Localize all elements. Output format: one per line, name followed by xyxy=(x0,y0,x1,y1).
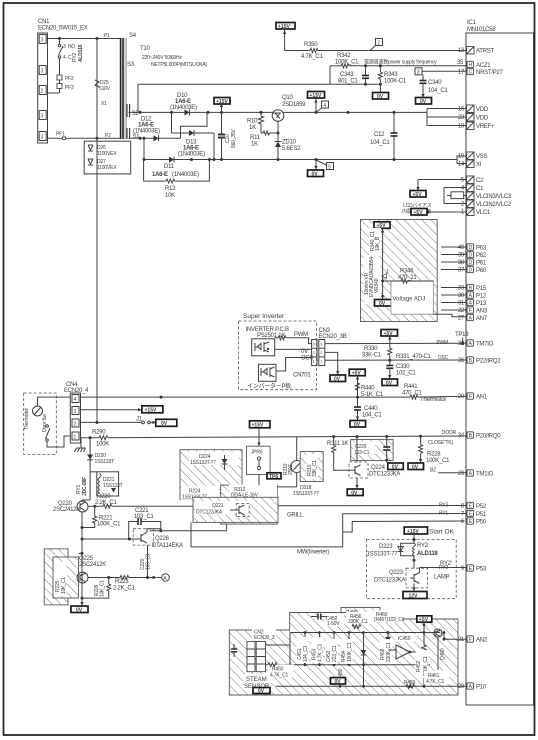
svg-text:VDD: VDD xyxy=(476,116,489,122)
svg-text:R228: R228 xyxy=(427,452,441,458)
RY1 MW line xyxy=(191,514,466,556)
IC1 pin 29 TM1IO xyxy=(458,470,494,478)
svg-text:LAMP: LAMP xyxy=(434,575,450,581)
svg-text:VDD: VDD xyxy=(476,107,489,113)
svg-text:VR340: VR340 xyxy=(374,278,380,293)
svg-text:39: 39 xyxy=(458,253,465,259)
svg-text:D: D xyxy=(468,245,472,251)
svg-text:ALD118: ALD118 xyxy=(78,44,84,62)
+5V top right xyxy=(417,616,432,622)
C330 xyxy=(382,360,416,386)
svg-text:MN101C58: MN101C58 xyxy=(467,27,496,33)
svg-text:VLC1: VLC1 xyxy=(476,210,491,216)
svg-text:AN1: AN1 xyxy=(476,395,488,401)
svg-text:ECN20_5W015_EX: ECN20_5W015_EX xyxy=(38,26,88,32)
svg-text:0V: 0V xyxy=(420,99,427,105)
svg-text:0V: 0V xyxy=(386,381,393,387)
svg-text:0V: 0V xyxy=(377,94,384,100)
svg-text:R346: R346 xyxy=(400,269,414,275)
svg-text:DTA114EKA: DTA114EKA xyxy=(152,543,183,549)
R440 +5V xyxy=(349,369,384,398)
R450 xyxy=(268,665,294,678)
diode D220 xyxy=(87,438,114,472)
svg-text:+15V: +15V xyxy=(252,423,264,429)
BZ wire xyxy=(430,468,466,474)
IC1 pin 8 P52 xyxy=(439,502,487,510)
svg-text:D: D xyxy=(468,253,472,259)
capacitor C12 xyxy=(370,111,398,161)
C440 xyxy=(350,397,382,428)
svg-text:35: 35 xyxy=(457,60,464,66)
optocoupler U701a xyxy=(252,339,275,356)
svg-text:4.7K_C1: 4.7K_C1 xyxy=(270,673,288,679)
svg-text:D223: D223 xyxy=(379,544,393,550)
wire S1 line with D12 xyxy=(129,112,208,139)
IC1 pin 35 ACZ1 xyxy=(457,60,491,69)
IC1 pin 20 AN1 xyxy=(458,393,488,401)
svg-text:14: 14 xyxy=(458,162,465,168)
svg-text:P51: P51 xyxy=(476,512,487,518)
PWM wire w/ resistor xyxy=(275,337,278,339)
internal rails xyxy=(266,644,291,646)
svg-text:P12: P12 xyxy=(476,294,487,300)
0V drop from CN3 pin2 xyxy=(325,352,346,382)
svg-text:C330: C330 xyxy=(396,364,410,370)
svg-text:1SS133T: 1SS133T xyxy=(95,459,115,465)
svg-text:P60: P60 xyxy=(476,268,487,274)
svg-text:31: 31 xyxy=(458,301,465,307)
DOOR CLOSE labels xyxy=(428,430,457,446)
IC1 pin 14 XI xyxy=(458,160,482,168)
hatched box Q221/R312 xyxy=(221,485,278,525)
IC1 pin 4 C1 xyxy=(461,184,484,192)
svg-text:1A6-E: 1A6-E xyxy=(152,172,168,178)
svg-text:C340: C340 xyxy=(428,80,442,86)
svg-text:R350: R350 xyxy=(304,42,318,48)
svg-text:DTC123JKA: DTC123JKA xyxy=(196,510,223,516)
svg-text:P13: P13 xyxy=(476,301,487,307)
svg-text:CN701: CN701 xyxy=(293,373,311,379)
svg-text:0V: 0V xyxy=(351,491,358,497)
svg-text:AN7: AN7 xyxy=(476,316,488,322)
resistor R350 xyxy=(285,42,466,60)
IC1 pin 3 VLCIN3/VLC3 xyxy=(461,192,512,200)
+5V label to pin1 VLC1 xyxy=(411,209,466,217)
svg-text:C: C xyxy=(468,70,472,76)
svg-text:104_C1: 104_C1 xyxy=(362,413,382,419)
svg-text:R11: R11 xyxy=(250,135,261,141)
svg-text:1-50V: 1-50V xyxy=(327,621,340,627)
R290 DOOR line xyxy=(81,430,467,448)
tag 4 xyxy=(316,101,329,112)
IC1 pin 37 P60 xyxy=(458,266,487,274)
svg-text:DTC123JKA: DTC123JKA xyxy=(369,472,400,478)
diode D13 branch xyxy=(172,112,215,159)
svg-text:104_C1: 104_C1 xyxy=(428,88,448,94)
svg-text:1K: 1K xyxy=(251,142,258,148)
svg-text:Voltage ADJ: Voltage ADJ xyxy=(393,297,426,303)
+5V label inside xyxy=(374,222,390,229)
hatched box R225 xyxy=(44,549,83,605)
svg-text:VREF+: VREF+ xyxy=(476,124,495,130)
svg-text:801_C1: 801_C1 xyxy=(338,79,358,85)
transistor Q10 xyxy=(272,95,306,135)
resistor R454 xyxy=(341,633,354,665)
+15V label at Q10 xyxy=(308,92,325,113)
R223 to A xyxy=(88,574,169,592)
connector CN4 xyxy=(64,382,89,443)
svg-text:0V: 0V xyxy=(258,689,265,695)
wire S2 +15V line xyxy=(129,111,428,114)
svg-text:R311 1K: R311 1K xyxy=(327,441,348,447)
svg-text:CLOSE"TK): CLOSE"TK) xyxy=(428,440,454,446)
svg-text:4: 4 xyxy=(74,397,77,403)
wire pin5 C2 to +5V xyxy=(410,180,466,199)
svg-text:インバーターP板: インバーターP板 xyxy=(247,382,291,390)
IC1 pin 32 TM7IO xyxy=(436,340,493,348)
svg-text:C12: C12 xyxy=(374,132,385,138)
svg-text:R12: R12 xyxy=(165,186,176,192)
svg-text:+15V: +15V xyxy=(278,24,290,30)
svg-text:+5V: +5V xyxy=(352,371,362,377)
svg-text:P53: P53 xyxy=(476,567,487,573)
svg-text:NO: NO xyxy=(68,44,75,50)
transformer T10 xyxy=(121,33,208,140)
IC1 pin 21 AN2 xyxy=(458,636,488,644)
svg-text:3: 3 xyxy=(41,114,44,120)
capacitor C451 xyxy=(297,633,310,665)
0V label below R343 xyxy=(373,84,389,100)
svg-text:NETP5L000P(MITSUOKA): NETP5L000P(MITSUOKA) xyxy=(151,62,208,68)
relay contact RY2 xyxy=(58,39,84,63)
svg-text:1100VEX: 1100VEX xyxy=(97,165,117,171)
svg-text:Q224: Q224 xyxy=(371,465,386,471)
IC1 pin 28 P10 xyxy=(458,683,487,691)
0V wire xyxy=(275,348,312,350)
transistor Q223 xyxy=(374,561,466,599)
svg-text:IC1: IC1 xyxy=(467,20,477,26)
svg-text:4: 4 xyxy=(63,55,66,61)
connector CN1 xyxy=(38,19,88,143)
svg-text:ZD10: ZD10 xyxy=(282,140,297,146)
svg-text:33K_C1: 33K_C1 xyxy=(312,460,318,477)
svg-text:(1N4003E): (1N4003E) xyxy=(172,172,199,178)
comparator IC450 xyxy=(388,634,420,659)
resistor R343 xyxy=(378,66,406,85)
svg-text:4.7K_C1: 4.7K_C1 xyxy=(301,54,324,60)
svg-text:OSC: OSC xyxy=(438,355,449,361)
svg-text:DOOR: DOOR xyxy=(442,430,457,436)
box on pin3 wire xyxy=(447,192,466,199)
transistor Q450 xyxy=(434,629,446,670)
svg-text:R343: R343 xyxy=(384,72,398,78)
svg-text:S3: S3 xyxy=(127,62,135,68)
svg-text:電源周波数: 電源周波数 xyxy=(364,59,388,66)
transistor Q220 xyxy=(53,500,90,598)
ground rail 0V xyxy=(143,138,467,161)
svg-text:ACZ1: ACZ1 xyxy=(476,63,491,69)
diodes D26 D27 box xyxy=(84,141,131,174)
resistor R342 ACZ1 net xyxy=(330,53,466,68)
svg-text:510V: 510V xyxy=(99,86,111,92)
IC1 pin 22 AN3 xyxy=(458,307,488,315)
svg-text:5-1K_C1: 5-1K_C1 xyxy=(361,392,384,398)
svg-text:GRILL: GRILL xyxy=(287,513,304,519)
svg-text:JPR6: JPR6 xyxy=(251,450,263,456)
svg-text:P15: P15 xyxy=(476,286,487,292)
svg-text:R441: R441 xyxy=(404,384,418,390)
varistor D25 xyxy=(95,33,111,139)
svg-text:0V: 0V xyxy=(312,172,319,178)
svg-text:102_C1: 102_C1 xyxy=(396,371,416,377)
svg-text:IC450: IC450 xyxy=(398,636,411,642)
svg-text:18: 18 xyxy=(458,124,465,130)
svg-text:PF1: PF1 xyxy=(56,132,65,138)
thermistor wires to CN4 xyxy=(38,397,71,447)
svg-text:10K: 10K xyxy=(165,193,175,199)
svg-text:36: 36 xyxy=(458,358,465,364)
svg-text:470_C1: 470_C1 xyxy=(402,391,422,397)
transistor Q225 xyxy=(77,556,106,583)
svg-text:+15V: +15V xyxy=(216,99,228,105)
svg-text:3: 3 xyxy=(74,409,77,415)
svg-text:12V: 12V xyxy=(409,593,419,599)
diode D450 xyxy=(338,633,366,687)
optocoupler U701b xyxy=(259,364,277,381)
resistor R11 xyxy=(250,131,278,148)
relay RY2 coil + D223 xyxy=(413,534,415,543)
svg-text:33K-C1: 33K-C1 xyxy=(362,353,382,359)
IC U1 body xyxy=(466,20,534,705)
svg-text:2SC2412K: 2SC2412K xyxy=(79,562,106,568)
svg-text:2.2K_C1: 2.2K_C1 xyxy=(113,586,136,592)
IC1 pin 31 P13 xyxy=(458,299,487,307)
svg-text:2SD1859: 2SD1859 xyxy=(282,102,306,108)
svg-text:104_C1: 104_C1 xyxy=(303,645,309,662)
hatched box D318 xyxy=(293,452,323,498)
svg-text:NRST/P27: NRST/P27 xyxy=(476,70,504,76)
IC1 pin 16 VDD xyxy=(458,105,489,113)
svg-text:+5V: +5V xyxy=(414,210,424,216)
svg-text:power supply frequency: power supply frequency xyxy=(388,60,437,66)
IC1 pin 23 VDD xyxy=(458,114,489,122)
left capacitor xyxy=(233,644,235,649)
IC1 pin 34 P20/IRQ0 xyxy=(458,432,501,440)
svg-text:38: 38 xyxy=(458,260,465,266)
long vertical rail from CN1 area down to CN4 xyxy=(96,138,98,424)
hatched box Q221 lower xyxy=(193,497,278,522)
svg-text:Q10: Q10 xyxy=(282,95,294,101)
svg-text:10K_B: 10K_B xyxy=(375,236,381,251)
connector CN3 xyxy=(312,328,347,366)
svg-text:R440: R440 xyxy=(361,386,375,392)
thermistor AN1 line xyxy=(81,384,467,403)
svg-text:23: 23 xyxy=(458,115,465,121)
svg-text:2: 2 xyxy=(41,89,44,95)
AN2 wire out xyxy=(444,638,466,640)
0V below Q225 xyxy=(71,598,88,613)
hatched box C220 xyxy=(351,437,404,471)
C221 xyxy=(129,508,161,539)
svg-text:C343: C343 xyxy=(340,72,354,78)
J1 jumper 0V CN4 pin2 xyxy=(81,417,177,428)
JPR6 xyxy=(247,421,271,485)
svg-text:330K_C1: 330K_C1 xyxy=(348,619,368,625)
svg-text:100K-C1: 100K-C1 xyxy=(384,79,407,85)
pins 40-37 / 33-31 / 22 stub wires xyxy=(441,247,466,310)
IC1 pin 1 VLC1 xyxy=(461,208,491,216)
resistor R453 xyxy=(311,633,324,665)
P10 wire out xyxy=(446,685,466,687)
white inner box Voltage ADJ xyxy=(391,281,433,314)
IC1 pin 13 ATRST xyxy=(458,47,495,55)
svg-text:103-C1: 103-C1 xyxy=(354,450,370,456)
svg-text:4.7K_C1: 4.7K_C1 xyxy=(426,679,444,685)
svg-text:Q226: Q226 xyxy=(155,536,170,542)
LCD bias jp text xyxy=(402,203,432,215)
svg-text:Super Inverter: Super Inverter xyxy=(243,313,285,320)
svg-text:H: H xyxy=(468,63,472,69)
svg-text:3: 3 xyxy=(417,70,420,76)
GRILL RY3 line xyxy=(278,506,466,519)
svg-text:0V: 0V xyxy=(334,377,341,383)
svg-text:C2: C2 xyxy=(476,178,484,184)
svg-text:104_C1: 104_C1 xyxy=(370,140,390,146)
IC1 pin 36 P22/IRQ2 xyxy=(458,357,501,365)
capacitor C10 xyxy=(218,112,237,159)
svg-text:1SS133T-77: 1SS133T-77 xyxy=(367,552,399,558)
capacitor C343 xyxy=(338,66,369,85)
svg-text:X1: X1 xyxy=(101,101,107,107)
svg-text:+5V: +5V xyxy=(384,331,394,337)
svg-text:Start OK: Start OK xyxy=(429,529,455,536)
wire to Q226 xyxy=(81,538,134,541)
svg-text:2.2K_C1: 2.2K_C1 xyxy=(95,500,118,506)
IC1 pin 9 P53 xyxy=(439,565,487,573)
svg-text:VSS: VSS xyxy=(476,154,488,160)
svg-text:29: 29 xyxy=(458,471,465,477)
svg-text:R452: R452 xyxy=(416,660,422,672)
svg-text:2: 2 xyxy=(377,40,380,46)
svg-text:R290: R290 xyxy=(92,430,106,436)
wire pin4 pin2 bracket xyxy=(444,188,466,204)
svg-text:1: 1 xyxy=(74,435,77,441)
resistor R10 xyxy=(247,112,264,133)
R330 pullup xyxy=(362,330,398,361)
svg-text:103_C1: 103_C1 xyxy=(146,553,152,570)
svg-text:ALD118: ALD118 xyxy=(417,551,438,557)
tag 2 xyxy=(370,39,383,51)
IC1 pin 40 P63 xyxy=(458,244,487,252)
svg-text:1SS133T-77: 1SS133T-77 xyxy=(190,460,216,466)
svg-text:P62: P62 xyxy=(476,253,487,259)
svg-text:F: F xyxy=(469,394,472,400)
svg-text:100K_C1: 100K_C1 xyxy=(97,522,121,528)
capacitor C453 xyxy=(326,633,339,665)
svg-text:F: F xyxy=(469,637,472,643)
svg-text:TP6: TP6 xyxy=(269,474,278,480)
svg-text:37: 37 xyxy=(458,268,465,274)
svg-text:0V: 0V xyxy=(335,679,342,685)
svg-text:220~240V 50/60Hz: 220~240V 50/60Hz xyxy=(142,55,182,61)
svg-text:C1: C1 xyxy=(476,186,484,192)
svg-text:D11: D11 xyxy=(164,164,175,170)
svg-text:S4: S4 xyxy=(129,33,137,39)
svg-text:AN2: AN2 xyxy=(476,638,488,644)
svg-text:Thermistor: Thermistor xyxy=(24,408,30,430)
thermistor dashed box xyxy=(24,393,57,454)
svg-text:16: 16 xyxy=(458,107,465,113)
svg-text:R10: R10 xyxy=(247,119,258,125)
svg-text:(1N4003E): (1N4003E) xyxy=(170,105,197,111)
IC1 pin 10 VSS xyxy=(458,152,488,160)
C222 vertical to A line xyxy=(140,545,152,577)
CN2 xyxy=(252,628,276,641)
svg-text:103_C1: 103_C1 xyxy=(134,514,154,520)
+15V label CN4 pin3 xyxy=(81,406,163,414)
wire CN1 bottom to P2 with PF1 xyxy=(48,132,121,140)
svg-text:P63: P63 xyxy=(476,246,487,252)
svg-text:3: 3 xyxy=(41,69,44,75)
IC1 pin 39 P62 xyxy=(458,251,487,259)
fuses PF2 PF3 xyxy=(48,58,74,93)
svg-text:Door Sw: Door Sw xyxy=(42,414,48,432)
IC1 pin 2 VLCIN2/VLC2 xyxy=(461,200,512,208)
svg-text:1: 1 xyxy=(386,269,389,275)
svg-text:5: 5 xyxy=(328,164,331,170)
R228 xyxy=(408,436,450,470)
svg-text:28: 28 xyxy=(458,684,465,690)
svg-text:+15V: +15V xyxy=(407,529,419,535)
IC1 pin 5 C2 xyxy=(461,176,484,184)
IC1 pin 30 P12 xyxy=(458,292,487,300)
svg-text:0V: 0V xyxy=(76,608,83,614)
svg-text:P2: P2 xyxy=(105,133,111,139)
svg-text:5.6ES2: 5.6ES2 xyxy=(282,146,301,152)
svg-text:PWM: PWM xyxy=(294,332,308,338)
IC1 pin 17 NRST/P27 xyxy=(458,68,504,76)
svg-text:VLCIN2/VLC2: VLCIN2/VLC2 xyxy=(476,202,512,208)
svg-text:TM7IO: TM7IO xyxy=(476,342,494,348)
svg-text:2: 2 xyxy=(74,422,77,428)
svg-text:D: D xyxy=(468,260,472,266)
svg-text:+15V: +15V xyxy=(145,408,157,414)
top row components xyxy=(324,614,344,627)
diode D10 xyxy=(170,93,197,115)
IC1 pin 6 P50 xyxy=(461,518,487,526)
TP6 label xyxy=(267,473,281,480)
ground symbol xyxy=(75,438,86,452)
diode D12 xyxy=(133,117,160,142)
OCS wire xyxy=(276,358,312,372)
svg-text:30: 30 xyxy=(458,293,465,299)
transistor Q226 xyxy=(133,506,226,549)
svg-text:ATRST: ATRST xyxy=(476,49,495,55)
transistor Q224 xyxy=(347,437,400,497)
svg-text:Q221: Q221 xyxy=(212,503,224,509)
relay RY1 xyxy=(76,472,123,500)
svg-text:T10: T10 xyxy=(140,46,151,52)
svg-text:21: 21 xyxy=(458,637,465,643)
VDD bracket wire xyxy=(427,109,466,126)
svg-text:+15V: +15V xyxy=(310,93,322,99)
0V labels xyxy=(331,678,346,684)
IC1 pin 7 P51 xyxy=(439,510,487,518)
capacitor C340 xyxy=(416,75,449,105)
svg-text:22: 22 xyxy=(458,308,465,314)
zener ZD10 xyxy=(275,133,302,160)
diode D11 xyxy=(152,157,199,178)
